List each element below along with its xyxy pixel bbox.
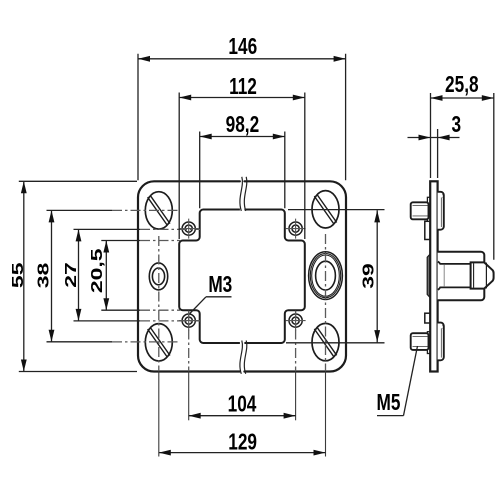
svg-text:38: 38 <box>35 263 53 289</box>
svg-text:3: 3 <box>452 113 462 138</box>
svg-text:25,8: 25,8 <box>445 73 479 98</box>
svg-text:104: 104 <box>228 392 257 417</box>
svg-text:20,5: 20,5 <box>88 248 106 293</box>
svg-text:55: 55 <box>9 263 27 289</box>
svg-text:146: 146 <box>228 35 257 60</box>
svg-text:129: 129 <box>228 430 257 455</box>
svg-text:112: 112 <box>229 75 257 100</box>
svg-text:98,2: 98,2 <box>226 113 260 138</box>
svg-text:M5: M5 <box>377 391 401 416</box>
svg-text:M3: M3 <box>208 273 232 298</box>
svg-text:39: 39 <box>360 263 378 289</box>
svg-text:27: 27 <box>62 262 80 288</box>
